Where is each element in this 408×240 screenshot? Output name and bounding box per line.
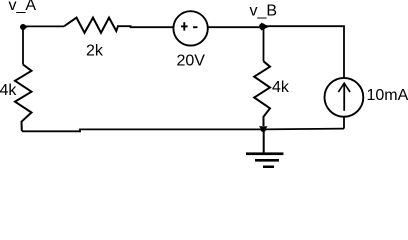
current source 10mA circle xyxy=(325,78,364,117)
wire from v_A to resistor 2k xyxy=(24,25,64,27)
svg-text:10mA: 10mA xyxy=(367,87,408,104)
voltage source 20V circle xyxy=(173,11,207,45)
node v_B junction xyxy=(259,23,269,31)
voltage source minus mark xyxy=(193,26,197,28)
wire from voltage source to node v_B xyxy=(208,26,260,28)
ground symbol xyxy=(246,129,283,168)
svg-text:4k: 4k xyxy=(0,82,17,99)
svg-text:v_B: v_B xyxy=(250,2,278,19)
voltage source plus mark xyxy=(181,22,188,30)
current source arrow xyxy=(338,83,350,111)
resistor 4k middle: wire from v_B down xyxy=(263,29,265,61)
wire from node v_B to top right corner and down to current source xyxy=(264,26,344,78)
wire from current source bottom to bottom rail xyxy=(343,116,345,128)
svg-text:2k: 2k xyxy=(86,43,104,60)
node v_A junction xyxy=(20,24,28,30)
svg-text:v_A: v_A xyxy=(9,0,37,14)
svg-text:4k: 4k xyxy=(272,79,290,96)
resistor 4k left: wire from v_A down xyxy=(22,28,24,65)
resistor 4k middle zigzag xyxy=(254,61,270,126)
ground junction with down arrow xyxy=(259,126,268,132)
svg-text:20V: 20V xyxy=(177,52,206,69)
resistor 2k xyxy=(64,18,118,33)
wire bottom rail xyxy=(22,129,344,132)
wire from resistor 2k to voltage source xyxy=(117,26,174,27)
resistor 4k left zigzag xyxy=(15,65,32,132)
